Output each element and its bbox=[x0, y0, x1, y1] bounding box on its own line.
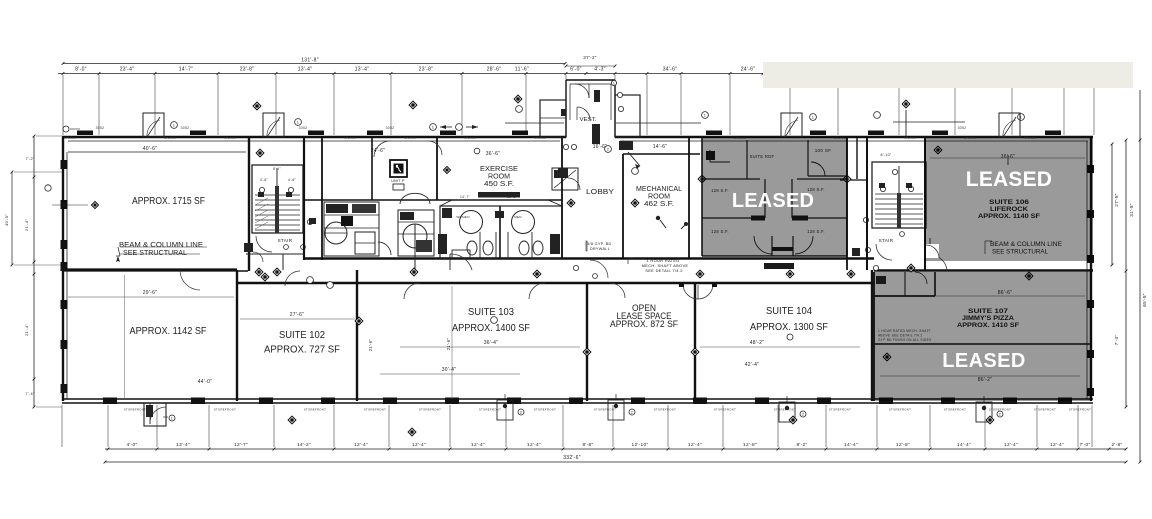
diamond symbols bbox=[253, 95, 1033, 436]
svg-text:13'-4": 13'-4" bbox=[176, 442, 190, 448]
storefront mullions bbox=[103, 398, 1072, 405]
corridor small tags bbox=[573, 265, 578, 270]
suite102 door arc bbox=[285, 271, 300, 286]
svg-text:21'-4": 21'-4" bbox=[24, 324, 29, 336]
top wall start bubble bbox=[63, 126, 69, 132]
svg-text:STOREFRONT: STOREFRONT bbox=[479, 408, 501, 412]
svg-text:3052: 3052 bbox=[181, 126, 190, 130]
leased3 interior bbox=[874, 272, 1092, 401]
svg-text:APPROX. 1140 SF: APPROX. 1140 SF bbox=[978, 214, 1040, 220]
svg-text:SEE STRUCTURAL: SEE STRUCTURAL bbox=[123, 248, 187, 257]
svg-text:29'-6": 29'-6" bbox=[143, 290, 158, 296]
svg-text:14'-7": 14'-7" bbox=[460, 195, 470, 199]
leased1 interior walls bbox=[702, 137, 847, 256]
svg-text:7'-0": 7'-0" bbox=[1079, 442, 1090, 448]
svg-text:12'-4": 12'-4" bbox=[1004, 442, 1018, 448]
svg-text:7'-2": 7'-2" bbox=[25, 157, 34, 161]
wall right of 1715SF room bbox=[248, 137, 250, 271]
svg-text:13'-4": 13'-4" bbox=[355, 67, 370, 73]
lobby NW corner blob bbox=[558, 168, 568, 178]
svg-text:11'-6": 11'-6" bbox=[515, 67, 529, 73]
leader arrows bbox=[440, 126, 452, 128]
svg-text:ABOVE SEE DETAIL 7/4.2: ABOVE SEE DETAIL 7/4.2 bbox=[878, 334, 923, 338]
corridor door bar below leased1 bbox=[764, 263, 794, 269]
svg-text:21'-6": 21'-6" bbox=[368, 339, 373, 352]
svg-text:GYP BD FINISH ON ALL SIDES: GYP BD FINISH ON ALL SIDES bbox=[878, 338, 932, 342]
exterior wall top-right section bbox=[615, 136, 1093, 139]
vest side bubbles bbox=[611, 80, 616, 85]
svg-text:31'-8": 31'-8" bbox=[1129, 203, 1134, 217]
svg-text:14'-6": 14'-6" bbox=[653, 144, 668, 150]
svg-text:SEE STRUCTURAL: SEE STRUCTURAL bbox=[992, 249, 1048, 256]
svg-text:12'-4": 12'-4" bbox=[1050, 442, 1064, 448]
mech north wall bbox=[623, 153, 700, 155]
left extension lines bbox=[14, 171, 62, 173]
suite104 tag circle bbox=[787, 334, 793, 340]
bottom dimension line bbox=[105, 448, 1127, 451]
svg-text:STOREFRONT: STOREFRONT bbox=[419, 408, 441, 412]
svg-text:SEE DETAIL 7/4.2: SEE DETAIL 7/4.2 bbox=[645, 268, 683, 273]
svg-text:5/8 GYP. BD.: 5/8 GYP. BD. bbox=[587, 242, 613, 246]
svg-text:STOREFRONT: STOREFRONT bbox=[1069, 408, 1091, 412]
svg-text:4'-0": 4'-0" bbox=[126, 442, 137, 448]
svg-text:12'-10": 12'-10" bbox=[632, 442, 649, 448]
svg-text:23'-4": 23'-4" bbox=[120, 67, 135, 73]
wall right of stair A bbox=[303, 137, 305, 260]
svg-text:STAIR: STAIR bbox=[278, 238, 293, 243]
notch left room bbox=[246, 253, 304, 255]
svg-text:40'-6": 40'-6" bbox=[143, 146, 158, 152]
svg-text:STOREFRONT: STOREFRONT bbox=[654, 408, 676, 412]
exterior wall left bbox=[62, 137, 64, 401]
svg-text:21'-4": 21'-4" bbox=[24, 219, 29, 231]
svg-text:3052: 3052 bbox=[299, 126, 308, 130]
wall left of stair B bbox=[866, 137, 868, 270]
svg-text:3052: 3052 bbox=[96, 126, 105, 130]
leased3 top wall bbox=[874, 269, 1093, 272]
svg-text:30'-4": 30'-4" bbox=[442, 367, 457, 373]
storefront labels bbox=[124, 408, 1091, 412]
svg-text:12'-4": 12'-4" bbox=[354, 442, 368, 448]
svg-text:STOREFRONT: STOREFRONT bbox=[889, 408, 911, 412]
svg-text:SUITE 106: SUITE 106 bbox=[989, 200, 1030, 206]
canopy bumps bbox=[143, 113, 1020, 137]
svg-text:STOREFRONT: STOREFRONT bbox=[214, 408, 236, 412]
leased3 shaft room bbox=[934, 272, 936, 296]
svg-text:8'-8": 8'-8" bbox=[582, 442, 593, 448]
svg-text:8'-2": 8'-2" bbox=[796, 442, 807, 448]
svg-text:SPLASH: SPLASH bbox=[344, 136, 356, 140]
svg-text:36'-4": 36'-4" bbox=[484, 340, 499, 346]
svg-text:STOREFRONT: STOREFRONT bbox=[534, 408, 556, 412]
beige redaction band top right bbox=[763, 62, 1133, 88]
leased2 interior bbox=[925, 137, 1085, 270]
far left dim line bbox=[11, 172, 13, 265]
svg-text:44'-0": 44'-0" bbox=[198, 379, 213, 385]
svg-text:APPROX. 1400 SF: APPROX. 1400 SF bbox=[452, 323, 530, 334]
svg-text:APPROX. 1410 SF: APPROX. 1410 SF bbox=[957, 323, 1019, 329]
svg-text:13'-4": 13'-4" bbox=[298, 67, 313, 73]
left dimension line bbox=[24, 135, 35, 409]
svg-text:JIMMY'S PIZZA: JIMMY'S PIZZA bbox=[962, 316, 1015, 322]
svg-text:15'-1": 15'-1" bbox=[507, 195, 517, 199]
svg-text:LIFEROCK: LIFEROCK bbox=[990, 207, 1029, 213]
wall 102 right bbox=[356, 270, 358, 401]
wall 104 right bbox=[871, 270, 873, 401]
svg-text:6'-0": 6'-0" bbox=[570, 67, 581, 73]
svg-text:STOREFRONT: STOREFRONT bbox=[594, 408, 616, 412]
mech pipe symbols bbox=[656, 216, 660, 220]
wall x372 bbox=[371, 137, 373, 200]
svg-text:LOBBY: LOBBY bbox=[586, 187, 614, 196]
window tags top bbox=[64, 126, 1036, 140]
left rooms top wall bbox=[62, 268, 237, 271]
svg-text:14'-4": 14'-4" bbox=[957, 442, 971, 448]
svg-text:8'-0": 8'-0" bbox=[75, 67, 86, 73]
svg-text:APPROX. 1142 SF: APPROX. 1142 SF bbox=[130, 326, 207, 337]
svg-text:49'-0": 49'-0" bbox=[4, 214, 9, 226]
svg-text:UNIT P: UNIT P bbox=[391, 179, 405, 183]
door arc left room SE bbox=[450, 254, 472, 270]
overall bottom dim bbox=[105, 461, 1126, 463]
left wall column blobs bbox=[61, 160, 68, 393]
svg-text:VEST.: VEST. bbox=[580, 117, 598, 123]
circle tags bbox=[171, 106, 1025, 324]
svg-text:STOREFRONT: STOREFRONT bbox=[829, 408, 851, 412]
right dimension lines bbox=[1111, 90, 1147, 463]
svg-text:APPROX. 872 SF: APPROX. 872 SF bbox=[610, 319, 678, 329]
svg-text:STAIR: STAIR bbox=[879, 238, 894, 243]
svg-text:131'-8": 131'-8" bbox=[301, 58, 319, 64]
left wall mid symbols bbox=[45, 185, 51, 191]
svg-text:LEASED: LEASED bbox=[966, 168, 1052, 191]
entry bump bottom bbox=[144, 403, 166, 426]
leased2 door recess bbox=[926, 244, 939, 258]
stair A bbox=[244, 165, 313, 262]
top dimension labels bbox=[75, 67, 755, 73]
exterior wall right bbox=[1090, 137, 1092, 401]
corridor stubs 847-867 bbox=[856, 137, 858, 179]
restrooms bbox=[438, 168, 578, 258]
svg-text:LEASED: LEASED bbox=[942, 350, 1026, 372]
kitchen equipment block A bbox=[324, 202, 379, 256]
mech arrow symbol bbox=[619, 141, 633, 150]
svg-text:STOREFRONT: STOREFRONT bbox=[124, 408, 146, 412]
svg-text:DRYWALL: DRYWALL bbox=[590, 247, 610, 251]
svg-text:24'-6": 24'-6" bbox=[741, 67, 756, 73]
svg-text:STOREFRONT: STOREFRONT bbox=[1034, 408, 1056, 412]
svg-text:SUITE 104: SUITE 104 bbox=[766, 306, 812, 317]
equipment block B bbox=[309, 193, 434, 270]
corridor wall right of leased1 bbox=[846, 137, 848, 270]
svg-text:SPLASH: SPLASH bbox=[464, 136, 476, 140]
wall right of exercise bbox=[561, 137, 563, 258]
svg-text:8'-10": 8'-10" bbox=[881, 153, 892, 157]
svg-text:SUITE 107: SUITE 107 bbox=[968, 309, 1009, 315]
svg-text:27'-6": 27'-6" bbox=[290, 312, 305, 318]
svg-text:23'-8": 23'-8" bbox=[240, 67, 255, 73]
stairB door arcs bbox=[930, 255, 947, 270]
riser above corridor bbox=[905, 110, 907, 137]
bottom tag clusters bbox=[497, 394, 1003, 422]
right wall column blobs bbox=[1087, 165, 1094, 396]
svg-text:SUITE 103: SUITE 103 bbox=[468, 307, 514, 318]
inner face line 1715SF bbox=[68, 151, 246, 153]
parapet line right of vestibule bbox=[616, 122, 701, 124]
svg-text:SPLASH: SPLASH bbox=[404, 136, 416, 140]
wall 1142-102 bbox=[236, 270, 238, 401]
wall right of stair B bbox=[924, 137, 926, 270]
wall open right bbox=[694, 283, 696, 401]
svg-text:MECHANICAL: MECHANICAL bbox=[636, 186, 682, 193]
svg-text:12'-4": 12'-4" bbox=[412, 442, 426, 448]
wall 103 right bbox=[586, 283, 588, 401]
svg-text:ROOM: ROOM bbox=[488, 174, 510, 181]
svg-text:SPLASH: SPLASH bbox=[64, 136, 76, 140]
svg-text:3052: 3052 bbox=[386, 126, 395, 130]
storefront wall bottom bbox=[62, 398, 1093, 400]
svg-text:7'-4": 7'-4" bbox=[25, 392, 34, 396]
wall x435 bbox=[436, 137, 438, 200]
svg-text:BEAM & COLUMN LINE: BEAM & COLUMN LINE bbox=[990, 241, 1063, 248]
svg-text:65'-8": 65'-8" bbox=[1142, 293, 1147, 307]
restroom north wall bbox=[304, 199, 562, 201]
suites north wall bbox=[236, 282, 874, 284]
door arcs suites bbox=[404, 283, 420, 299]
unit P symbol bbox=[390, 160, 407, 177]
svg-text:28'-6": 28'-6" bbox=[487, 67, 502, 73]
leased overlay 3 bbox=[874, 272, 1092, 401]
svg-text:24'-6": 24'-6" bbox=[371, 148, 386, 154]
svg-text:12'-4": 12'-4" bbox=[471, 442, 485, 448]
svg-text:SPLASH: SPLASH bbox=[224, 136, 236, 140]
vest door arcs bbox=[575, 84, 589, 98]
bottom dimension labels bbox=[126, 442, 1122, 448]
svg-text:7'-4": 7'-4" bbox=[1114, 335, 1119, 346]
svg-text:WOMEN: WOMEN bbox=[456, 215, 469, 219]
svg-text:SPLASH: SPLASH bbox=[164, 136, 176, 140]
vest side rooms bbox=[540, 100, 566, 137]
top wall window mullions bbox=[77, 131, 1061, 136]
svg-text:APPROX. 1715 SF: APPROX. 1715 SF bbox=[132, 196, 205, 207]
svg-text:12'-8": 12'-8" bbox=[896, 442, 910, 448]
column grid lines top bbox=[63, 75, 1094, 135]
svg-text:27'-8": 27'-8" bbox=[1114, 193, 1119, 207]
wall lobby-mech bbox=[622, 154, 624, 258]
corridor north wall bbox=[304, 257, 874, 260]
svg-text:STOREFRONT: STOREFRONT bbox=[714, 408, 736, 412]
svg-text:APPROX. 1300 SF: APPROX. 1300 SF bbox=[750, 322, 828, 333]
svg-text:STOREFRONT: STOREFRONT bbox=[304, 408, 326, 412]
svg-text:STOREFRONT: STOREFRONT bbox=[364, 408, 386, 412]
overall top dimension line bbox=[63, 63, 565, 65]
svg-text:LEASED: LEASED bbox=[732, 190, 814, 212]
svg-text:450 S.F.: 450 S.F. bbox=[484, 181, 514, 188]
svg-text:12'-7": 12'-7" bbox=[234, 442, 248, 448]
svg-text:4'-3": 4'-3" bbox=[594, 67, 605, 73]
svg-text:14'-2": 14'-2" bbox=[297, 442, 311, 448]
svg-text:SUITE 102: SUITE 102 bbox=[279, 330, 325, 341]
wall mech right bbox=[688, 137, 690, 258]
door arc unitP room bbox=[374, 141, 390, 157]
svg-text:21'-6": 21'-6" bbox=[446, 338, 451, 351]
column grid lines bottom bbox=[62, 405, 1092, 447]
leased overlay 1 bbox=[702, 137, 847, 256]
svg-text:14'-4": 14'-4" bbox=[844, 442, 858, 448]
svg-text:12'-8": 12'-8" bbox=[743, 442, 757, 448]
svg-text:12'-4": 12'-4" bbox=[527, 442, 541, 448]
svg-text:STOREFRONT: STOREFRONT bbox=[944, 408, 966, 412]
svg-text:37'-2": 37'-2" bbox=[583, 55, 597, 60]
vestibule bump exterior bbox=[566, 80, 615, 137]
svg-text:36'-6": 36'-6" bbox=[486, 151, 501, 157]
svg-text:4'-6": 4'-6" bbox=[288, 178, 297, 182]
svg-text:4'-6": 4'-6" bbox=[260, 178, 269, 182]
svg-text:462 S.F.: 462 S.F. bbox=[644, 201, 674, 208]
svg-text:ROOM: ROOM bbox=[648, 194, 670, 201]
svg-text:APPROX. 727 SF: APPROX. 727 SF bbox=[264, 345, 340, 356]
wall x322 bbox=[321, 137, 323, 260]
stair B bbox=[863, 153, 926, 271]
svg-text:14'-7": 14'-7" bbox=[179, 67, 194, 73]
svg-text:1 HOUR RATED MECH. SHAFT: 1 HOUR RATED MECH. SHAFT bbox=[878, 329, 931, 333]
svg-text:332'-6": 332'-6" bbox=[563, 455, 581, 461]
svg-text:42'-4": 42'-4" bbox=[745, 362, 760, 368]
svg-text:34'-6": 34'-6" bbox=[663, 67, 678, 73]
interior dim verticals bbox=[124, 275, 126, 399]
exterior wall top-left section bbox=[62, 136, 566, 139]
vest interior blob bbox=[594, 90, 600, 102]
top dimension line bbox=[58, 72, 765, 75]
svg-text:EXERCISE: EXERCISE bbox=[480, 166, 518, 173]
svg-text:2'-8": 2'-8" bbox=[1111, 442, 1122, 448]
svg-text:12'-4": 12'-4" bbox=[688, 442, 702, 448]
svg-text:8'-1": 8'-1" bbox=[273, 167, 281, 171]
leased overlay 2 bbox=[925, 138, 1093, 261]
extra corridor arcs bbox=[180, 270, 200, 290]
svg-text:MEN: MEN bbox=[514, 215, 522, 219]
svg-text:23'-8": 23'-8" bbox=[419, 67, 434, 73]
svg-text:48'-2": 48'-2" bbox=[750, 340, 765, 346]
svg-text:3052: 3052 bbox=[958, 126, 967, 130]
